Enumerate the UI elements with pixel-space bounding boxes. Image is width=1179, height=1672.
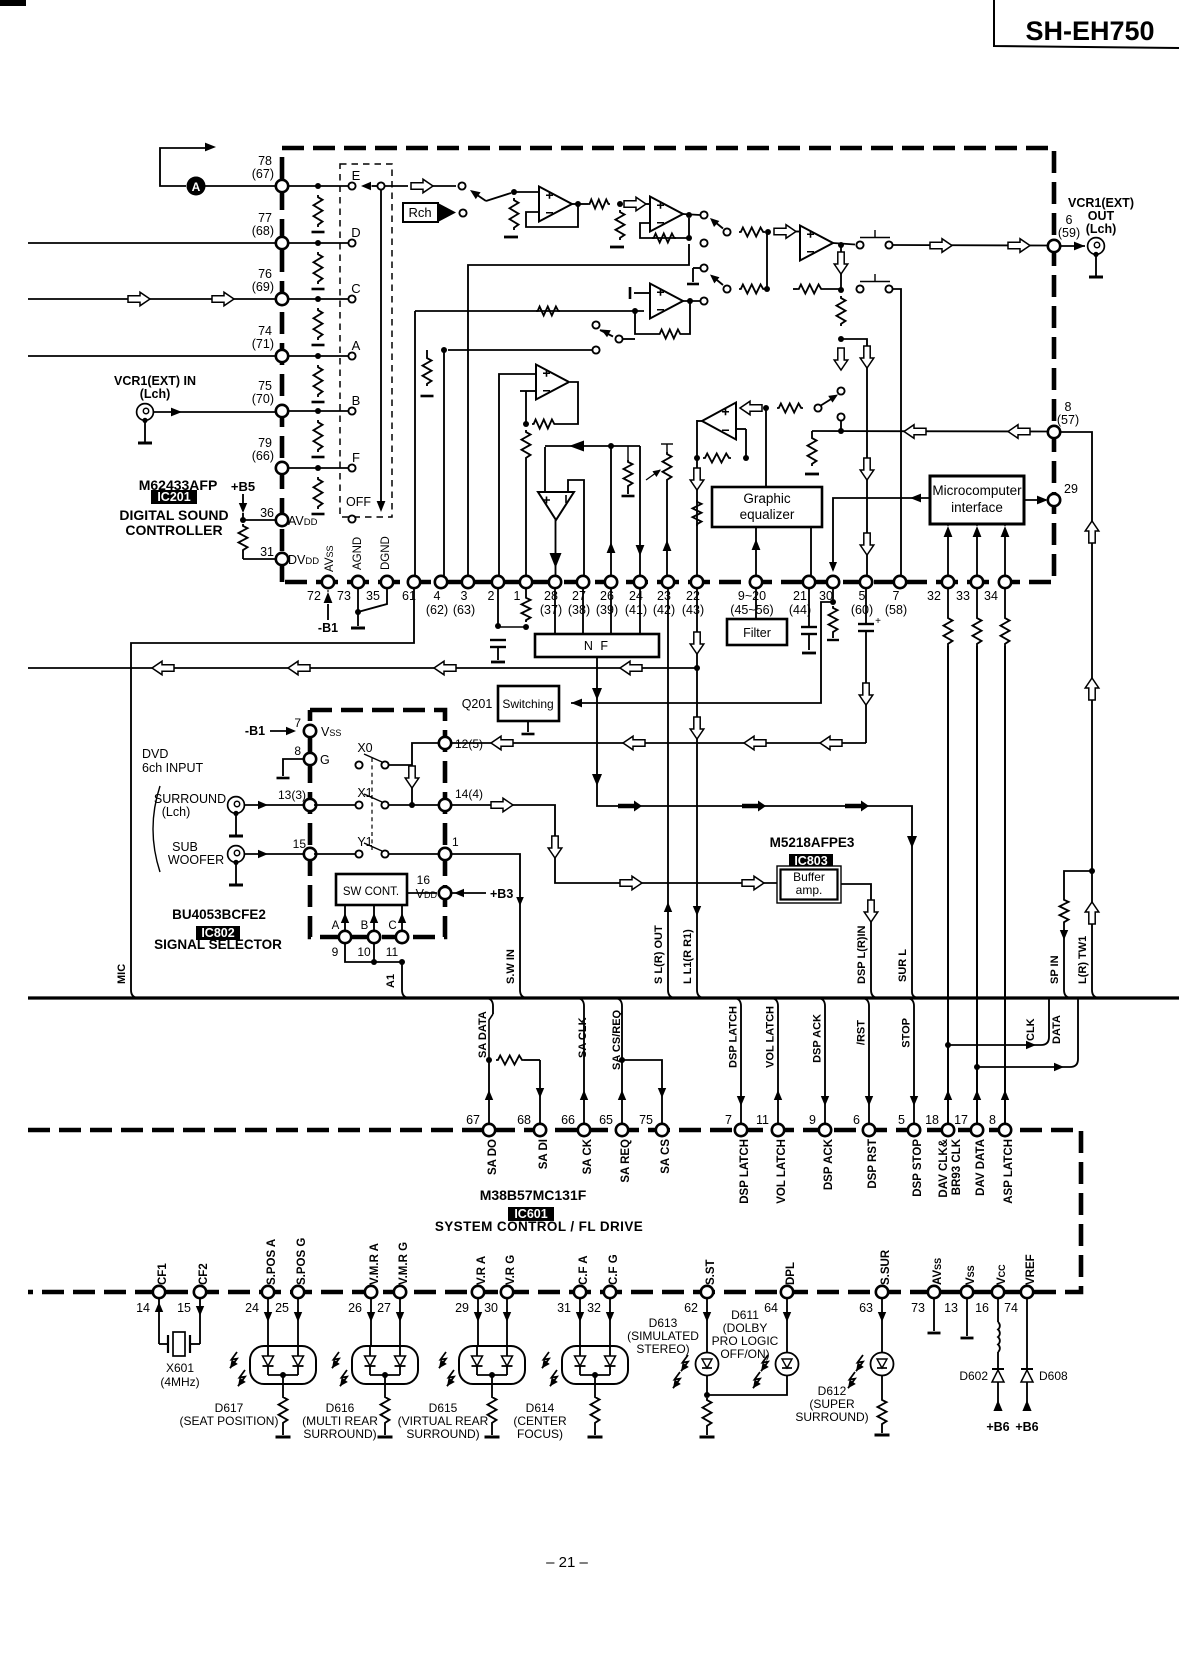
svg-text:FOCUS): FOCUS) xyxy=(517,1427,563,1441)
wire xyxy=(840,421,842,431)
IC201 pin 61 xyxy=(408,576,420,588)
svg-text:24: 24 xyxy=(245,1301,259,1315)
svg-text:X0: X0 xyxy=(357,741,372,755)
IC601 pin 9 xyxy=(819,1124,831,1136)
wire GE to pin 21 xyxy=(810,527,812,577)
IC601 pin 75 xyxy=(656,1124,668,1136)
column pin 22 xyxy=(696,420,698,577)
svg-text:A: A xyxy=(192,180,201,194)
svg-text:S.W IN: S.W IN xyxy=(505,949,517,984)
svg-text:62: 62 xyxy=(684,1301,698,1315)
IC201 pin 2 xyxy=(492,576,504,588)
feedback wire xyxy=(640,218,689,238)
node dot xyxy=(686,212,692,218)
wire micro to pin 29 xyxy=(1024,499,1046,501)
IC201 pin 23 (42) xyxy=(662,576,674,588)
Graphic equalizer box xyxy=(712,487,822,527)
IC201 pin 72 xyxy=(322,576,334,588)
svg-text:L L1(R R1): L L1(R R1) xyxy=(682,929,694,984)
svg-text:D616: D616 xyxy=(326,1401,355,1415)
svg-text:1: 1 xyxy=(452,835,459,849)
wire xyxy=(525,391,527,424)
svg-text:VCR1(EXT): VCR1(EXT) xyxy=(1068,196,1134,210)
selector contact D xyxy=(348,239,355,246)
svg-text:E: E xyxy=(352,168,361,183)
polarized capacitor pin 5(60) xyxy=(865,588,867,624)
IC201 pin 73 xyxy=(352,576,364,588)
trimmer xyxy=(666,444,668,452)
svg-text:SURROUND): SURROUND) xyxy=(406,1427,479,1441)
svg-text:amp.: amp. xyxy=(796,883,823,897)
resistor xyxy=(808,436,817,466)
svg-text:equalizer: equalizer xyxy=(740,507,795,522)
IC601 pin 13 xyxy=(961,1286,973,1298)
A1 wire xyxy=(345,943,402,990)
svg-text:74: 74 xyxy=(1004,1301,1018,1315)
resistor xyxy=(510,198,519,230)
svg-text:7: 7 xyxy=(725,1113,732,1127)
switch contacts xyxy=(856,241,863,248)
SW CONT box xyxy=(336,874,407,905)
IC601 box outline xyxy=(28,1130,1081,1292)
pin 1 selector xyxy=(439,848,451,860)
svg-text:/RST: /RST xyxy=(856,1020,868,1045)
svg-text:+B6: +B6 xyxy=(1015,1420,1038,1434)
svg-text:L(R) TW1: L(R) TW1 xyxy=(1077,936,1089,984)
svg-text:SUR L: SUR L xyxy=(897,949,909,982)
DAV DATA column xyxy=(976,646,978,1124)
CLK wire xyxy=(948,1044,1036,1046)
DSP L(R)IN column xyxy=(841,884,871,990)
svg-text:OUT: OUT xyxy=(1088,209,1115,223)
wire xyxy=(499,374,536,577)
svg-text:AVDD: AVDD xyxy=(288,514,318,528)
DATA wire xyxy=(977,1066,1064,1068)
node dot xyxy=(315,296,321,302)
svg-text:V.R G: V.R G xyxy=(505,1255,517,1285)
svg-text:D602: D602 xyxy=(959,1369,988,1383)
svg-text:(Lch): (Lch) xyxy=(1086,222,1117,236)
svg-text:27: 27 xyxy=(377,1301,391,1315)
svg-text:17: 17 xyxy=(954,1113,968,1127)
svg-text:VCC: VCC xyxy=(996,1264,1008,1285)
svg-text:(63): (63) xyxy=(453,603,475,617)
selector contact F xyxy=(348,464,355,471)
svg-text:29: 29 xyxy=(455,1301,469,1315)
DSP LATCH drop xyxy=(733,998,741,1124)
svg-text:DSP STOP: DSP STOP xyxy=(912,1139,924,1197)
svg-text:(37): (37) xyxy=(540,603,562,617)
node dot xyxy=(315,240,321,246)
svg-text:C.F G: C.F G xyxy=(608,1254,620,1285)
svg-text:78: 78 xyxy=(258,154,272,168)
IC601 pin 32 xyxy=(604,1286,616,1298)
svg-text:(43): (43) xyxy=(682,603,704,617)
svg-text:13(3): 13(3) xyxy=(278,788,306,802)
svg-text:(62): (62) xyxy=(426,603,448,617)
wire xyxy=(205,185,276,187)
switch xyxy=(723,285,730,292)
svg-text:31: 31 xyxy=(260,545,274,559)
lightning arrows xyxy=(439,1352,446,1368)
wire D613-D611 xyxy=(707,1376,787,1395)
IC201 pin 5 (60) xyxy=(860,576,872,588)
Microcomputer interface box xyxy=(930,476,1024,524)
svg-text:S.POS G: S.POS G xyxy=(296,1238,308,1285)
switch contact xyxy=(837,387,844,394)
wire xyxy=(153,411,276,413)
svg-text:DGND: DGND xyxy=(380,536,392,570)
svg-text:30: 30 xyxy=(484,1301,498,1315)
IC201 pin 4 (62) xyxy=(435,576,447,588)
op-amp U4 graphic eq xyxy=(702,403,736,440)
svg-text:+B5: +B5 xyxy=(231,479,255,494)
svg-text:A: A xyxy=(332,920,340,932)
LED pack D616 xyxy=(370,1298,372,1346)
wire to pin 7(58) xyxy=(893,289,901,577)
wire input 74 xyxy=(28,355,276,357)
svg-text:C.F A: C.F A xyxy=(578,1255,590,1285)
svg-text:DSP ACK: DSP ACK xyxy=(823,1138,835,1190)
svg-text:(Lch): (Lch) xyxy=(140,387,171,401)
IC601 pin 17 xyxy=(971,1124,983,1136)
svg-text:11: 11 xyxy=(756,1113,769,1127)
IC601 pin 62 xyxy=(701,1286,713,1298)
IC601 pin 6 xyxy=(863,1124,875,1136)
wire pin24 column xyxy=(639,446,641,577)
lightning arrows xyxy=(230,1352,237,1368)
svg-text:(MULTI REAR: (MULTI REAR xyxy=(302,1414,378,1428)
svg-text:(VIRTUAL REAR: (VIRTUAL REAR xyxy=(398,1414,489,1428)
svg-text:63: 63 xyxy=(859,1301,873,1315)
switch xyxy=(592,321,599,328)
wire y265 xyxy=(468,244,689,577)
svg-text:(67): (67) xyxy=(252,167,274,181)
feedback resistor xyxy=(658,330,682,339)
wire xyxy=(572,203,588,205)
svg-text:68: 68 xyxy=(517,1113,531,1127)
svg-text:DATA: DATA xyxy=(1051,1015,1063,1044)
ground on + input xyxy=(634,292,650,294)
svg-text:(SUPER: (SUPER xyxy=(809,1397,855,1411)
svg-text:BR93 CLK: BR93 CLK xyxy=(951,1138,963,1195)
svg-text:interface: interface xyxy=(951,500,1003,515)
svg-text:9: 9 xyxy=(332,945,339,959)
VOL LATCH drop xyxy=(770,998,778,1124)
svg-text:(42): (42) xyxy=(653,603,675,617)
selector wiper line xyxy=(377,182,384,189)
svg-text:S.POS A: S.POS A xyxy=(266,1239,278,1285)
IC601 pin 74 xyxy=(1021,1286,1033,1298)
svg-text:VCR1(EXT) IN: VCR1(EXT) IN xyxy=(114,374,196,388)
IC601 pin 25 xyxy=(292,1286,304,1298)
IC601 pin 65 xyxy=(616,1124,628,1136)
svg-text:B: B xyxy=(352,393,361,408)
svg-text:STOP: STOP xyxy=(901,1018,913,1048)
feedback wire xyxy=(526,204,578,227)
output line down xyxy=(838,242,844,248)
selector contact B xyxy=(348,407,355,414)
svg-text:A: A xyxy=(352,338,361,353)
svg-text:DSP LATCH: DSP LATCH xyxy=(739,1139,751,1204)
VCC coil and diode D602 xyxy=(997,1298,999,1322)
svg-text:9: 9 xyxy=(809,1113,816,1127)
svg-text:MIC: MIC xyxy=(116,964,128,984)
IC201 pin 24 (41) xyxy=(634,576,646,588)
LED pack D617 xyxy=(267,1298,269,1346)
op-amp U1 xyxy=(514,191,539,193)
open arrow down xyxy=(834,348,848,370)
svg-text:(SIMULATED: (SIMULATED xyxy=(627,1329,699,1343)
svg-text:1: 1 xyxy=(514,589,521,603)
svg-text:SURROUND: SURROUND xyxy=(154,792,226,806)
E row switch xyxy=(385,185,408,187)
svg-text:(70): (70) xyxy=(252,392,274,406)
main bus line xyxy=(28,996,1179,999)
selector contact E xyxy=(348,182,355,189)
resistor xyxy=(797,285,823,294)
svg-text:36: 36 xyxy=(260,506,274,520)
mech link dashed xyxy=(371,758,373,850)
svg-text:77: 77 xyxy=(258,211,272,225)
wire xyxy=(443,350,445,577)
svg-text:STEREO): STEREO) xyxy=(636,1342,689,1356)
resistor pin 1 xyxy=(525,588,527,596)
svg-text:Q201: Q201 xyxy=(462,697,493,711)
svg-text:Rch: Rch xyxy=(408,205,431,220)
op-amp U7 down xyxy=(538,492,574,520)
svg-text:D612: D612 xyxy=(818,1384,847,1398)
wire y431 to pin 8(57) xyxy=(812,430,1048,433)
ground pins 73 35 xyxy=(357,588,359,612)
Rch label block xyxy=(403,203,438,222)
wire xyxy=(683,214,700,215)
resistor xyxy=(594,1375,596,1395)
wire pin61 to MIC xyxy=(131,588,414,990)
IC601 pin 27 xyxy=(394,1286,406,1298)
feedback resistor xyxy=(652,234,676,243)
open arrow xyxy=(624,197,646,211)
resistor xyxy=(536,307,560,316)
svg-text:SYSTEM CONTROL / FL DRIVE: SYSTEM CONTROL / FL DRIVE xyxy=(435,1219,643,1234)
DSP ACK drop xyxy=(817,998,825,1124)
svg-text:+B6: +B6 xyxy=(986,1420,1009,1434)
svg-text:SURROUND): SURROUND) xyxy=(303,1427,376,1441)
svg-text:66: 66 xyxy=(561,1113,575,1127)
svg-text:DIGITAL SOUND: DIGITAL SOUND xyxy=(119,507,228,523)
resistor xyxy=(703,1398,712,1428)
svg-text:IC201: IC201 xyxy=(157,490,190,504)
wire xyxy=(288,185,349,187)
svg-text:18: 18 xyxy=(925,1113,939,1127)
svg-text:SW CONT.: SW CONT. xyxy=(343,886,399,898)
wire micro to pin 30 xyxy=(833,498,930,570)
IC601 pin 18 xyxy=(942,1124,954,1136)
input selector inner dashed box xyxy=(340,164,392,517)
svg-text:F: F xyxy=(352,450,360,465)
svg-text:76: 76 xyxy=(258,267,272,281)
svg-text:11: 11 xyxy=(386,945,399,959)
svg-text:DSP L(R)IN: DSP L(R)IN xyxy=(856,925,868,984)
VREF diode D608 xyxy=(1026,1298,1028,1369)
wire xyxy=(288,298,349,300)
contact circle xyxy=(592,346,599,353)
svg-text:(68): (68) xyxy=(252,224,274,238)
svg-text:(4MHz): (4MHz) xyxy=(160,1375,199,1389)
IC601 pin 7 xyxy=(735,1124,747,1136)
wire pin30 to switching xyxy=(571,602,833,703)
lightning arrows xyxy=(332,1352,339,1368)
wire pins 32 33 34 down xyxy=(947,588,949,616)
STOP drop xyxy=(906,998,914,1124)
svg-text:4: 4 xyxy=(434,589,441,603)
svg-text:(38): (38) xyxy=(568,603,590,617)
svg-text:S.SUR: S.SUR xyxy=(880,1249,892,1285)
svg-text:VSS: VSS xyxy=(965,1265,977,1285)
svg-text:14: 14 xyxy=(136,1301,150,1315)
svg-text:VREF: VREF xyxy=(1025,1254,1037,1285)
svg-text:67: 67 xyxy=(466,1113,480,1127)
switch contacts row2 xyxy=(856,285,863,292)
svg-text:15: 15 xyxy=(177,1301,191,1315)
open arrow xyxy=(930,239,952,253)
wire xyxy=(288,467,349,469)
selector contact C xyxy=(348,295,355,302)
svg-text:72: 72 xyxy=(307,589,321,603)
svg-text:CLK: CLK xyxy=(1025,1018,1037,1041)
svg-text:V.M.R G: V.M.R G xyxy=(398,1242,410,1285)
resistor xyxy=(314,365,323,397)
svg-text:+B3: +B3 xyxy=(490,887,513,901)
svg-text:VDD: VDD xyxy=(416,887,438,901)
svg-text:D615: D615 xyxy=(429,1401,458,1415)
svg-text:DSP LATCH: DSP LATCH xyxy=(728,1006,740,1068)
IC601 pin 63 xyxy=(876,1286,888,1298)
op-amp U5 xyxy=(650,284,683,319)
svg-text:PRO LOGIC: PRO LOGIC xyxy=(712,1334,779,1348)
IC201 box outline xyxy=(282,148,1054,582)
wire GE to pin 9-20 xyxy=(755,527,757,577)
LED pack D614 xyxy=(579,1298,581,1346)
svg-text:SA CLK: SA CLK xyxy=(577,1017,589,1058)
svg-text:(58): (58) xyxy=(885,603,907,617)
svg-text:DAV CLK&: DAV CLK& xyxy=(938,1139,950,1198)
open arrow xyxy=(1008,239,1030,253)
NF box xyxy=(535,634,659,657)
svg-text:VOL LATCH: VOL LATCH xyxy=(776,1139,788,1204)
svg-text:SH-EH750: SH-EH750 xyxy=(1025,16,1154,46)
open arrow xyxy=(740,401,762,415)
svg-text:V.R A: V.R A xyxy=(476,1256,488,1285)
svg-text:(66): (66) xyxy=(252,449,274,463)
IC201 pin 9~20 (45~56) xyxy=(750,576,762,588)
IC201 pin 35 xyxy=(381,576,393,588)
node dot xyxy=(838,336,844,342)
IC201 pin 30 xyxy=(827,576,839,588)
resistor xyxy=(491,1375,493,1395)
page corner mark xyxy=(0,0,26,6)
IC601 pin 26 xyxy=(365,1286,377,1298)
svg-text:Filter: Filter xyxy=(743,626,771,640)
U7 - input wire xyxy=(568,480,584,577)
wire input 76 xyxy=(28,298,276,300)
svg-text:25: 25 xyxy=(275,1301,289,1315)
svg-text:(41): (41) xyxy=(625,603,647,617)
svg-text:6ch INPUT: 6ch INPUT xyxy=(142,761,203,775)
svg-text:SURROUND): SURROUND) xyxy=(795,1410,868,1424)
pin 14(4) xyxy=(439,799,451,811)
svg-text:+: + xyxy=(875,616,881,627)
svg-text:SA CK: SA CK xyxy=(582,1138,594,1174)
wire xyxy=(160,148,206,186)
resistor xyxy=(588,200,610,209)
feedback xyxy=(682,301,690,334)
pin 30 network xyxy=(832,588,834,602)
IC601 pin 24 xyxy=(262,1286,274,1298)
svg-text:C: C xyxy=(351,281,360,296)
micro inputs xyxy=(947,536,949,577)
svg-text:35: 35 xyxy=(366,589,380,603)
L(R) TW1 column xyxy=(1060,432,1092,990)
svg-text:(69): (69) xyxy=(252,280,274,294)
IC201 pin 34 xyxy=(999,576,1011,588)
IC201 pin 21 (44) xyxy=(803,576,815,588)
svg-text:BU4053BCFE2: BU4053BCFE2 xyxy=(172,907,266,922)
IC201 pin 28 (37) xyxy=(549,576,561,588)
IC601 pin 68 xyxy=(534,1124,546,1136)
/RST drop xyxy=(861,998,869,1124)
switch contact xyxy=(837,413,844,420)
crystal X601 xyxy=(158,1298,160,1344)
wire xyxy=(288,355,349,357)
IC201 pin 27 (38) xyxy=(577,576,589,588)
resistor xyxy=(384,1375,386,1395)
svg-text:M5218AFPE3: M5218AFPE3 xyxy=(770,835,855,850)
IC201 pin 22 (43) xyxy=(691,576,703,588)
resistor xyxy=(837,296,846,326)
node dot xyxy=(608,443,614,449)
Buffer amp box xyxy=(777,866,841,903)
svg-text:AVSS: AVSS xyxy=(324,545,336,572)
svg-text:SP IN: SP IN xyxy=(1049,955,1061,984)
svg-text:D617: D617 xyxy=(215,1401,244,1415)
svg-text:(60): (60) xyxy=(851,603,873,617)
resistor xyxy=(627,446,629,460)
svg-text:3: 3 xyxy=(461,589,468,603)
wire pin26 column xyxy=(610,446,612,577)
wire y350 xyxy=(448,349,592,351)
IC601 pin 67 xyxy=(483,1124,495,1136)
svg-text:C: C xyxy=(388,920,396,932)
IC601 pin 66 xyxy=(578,1124,590,1136)
capacitor pin 21 xyxy=(808,588,810,627)
wire xyxy=(766,232,768,289)
resistor xyxy=(314,477,323,509)
svg-text:75: 75 xyxy=(258,379,272,393)
svg-text:31: 31 xyxy=(557,1301,571,1315)
title box SH-EH750 xyxy=(994,0,1179,48)
svg-text:Graphic: Graphic xyxy=(743,491,791,506)
NF to SUR L path xyxy=(597,657,912,992)
svg-text:7: 7 xyxy=(893,589,900,603)
svg-text:15: 15 xyxy=(293,837,307,851)
VSS ground xyxy=(966,1298,968,1336)
open arrow xyxy=(774,225,796,239)
IC201 pin 26 (39) xyxy=(605,576,617,588)
wire to pin 6 xyxy=(833,243,855,245)
resistor xyxy=(426,350,428,356)
svg-text:M38B57MC131F: M38B57MC131F xyxy=(480,1187,587,1203)
